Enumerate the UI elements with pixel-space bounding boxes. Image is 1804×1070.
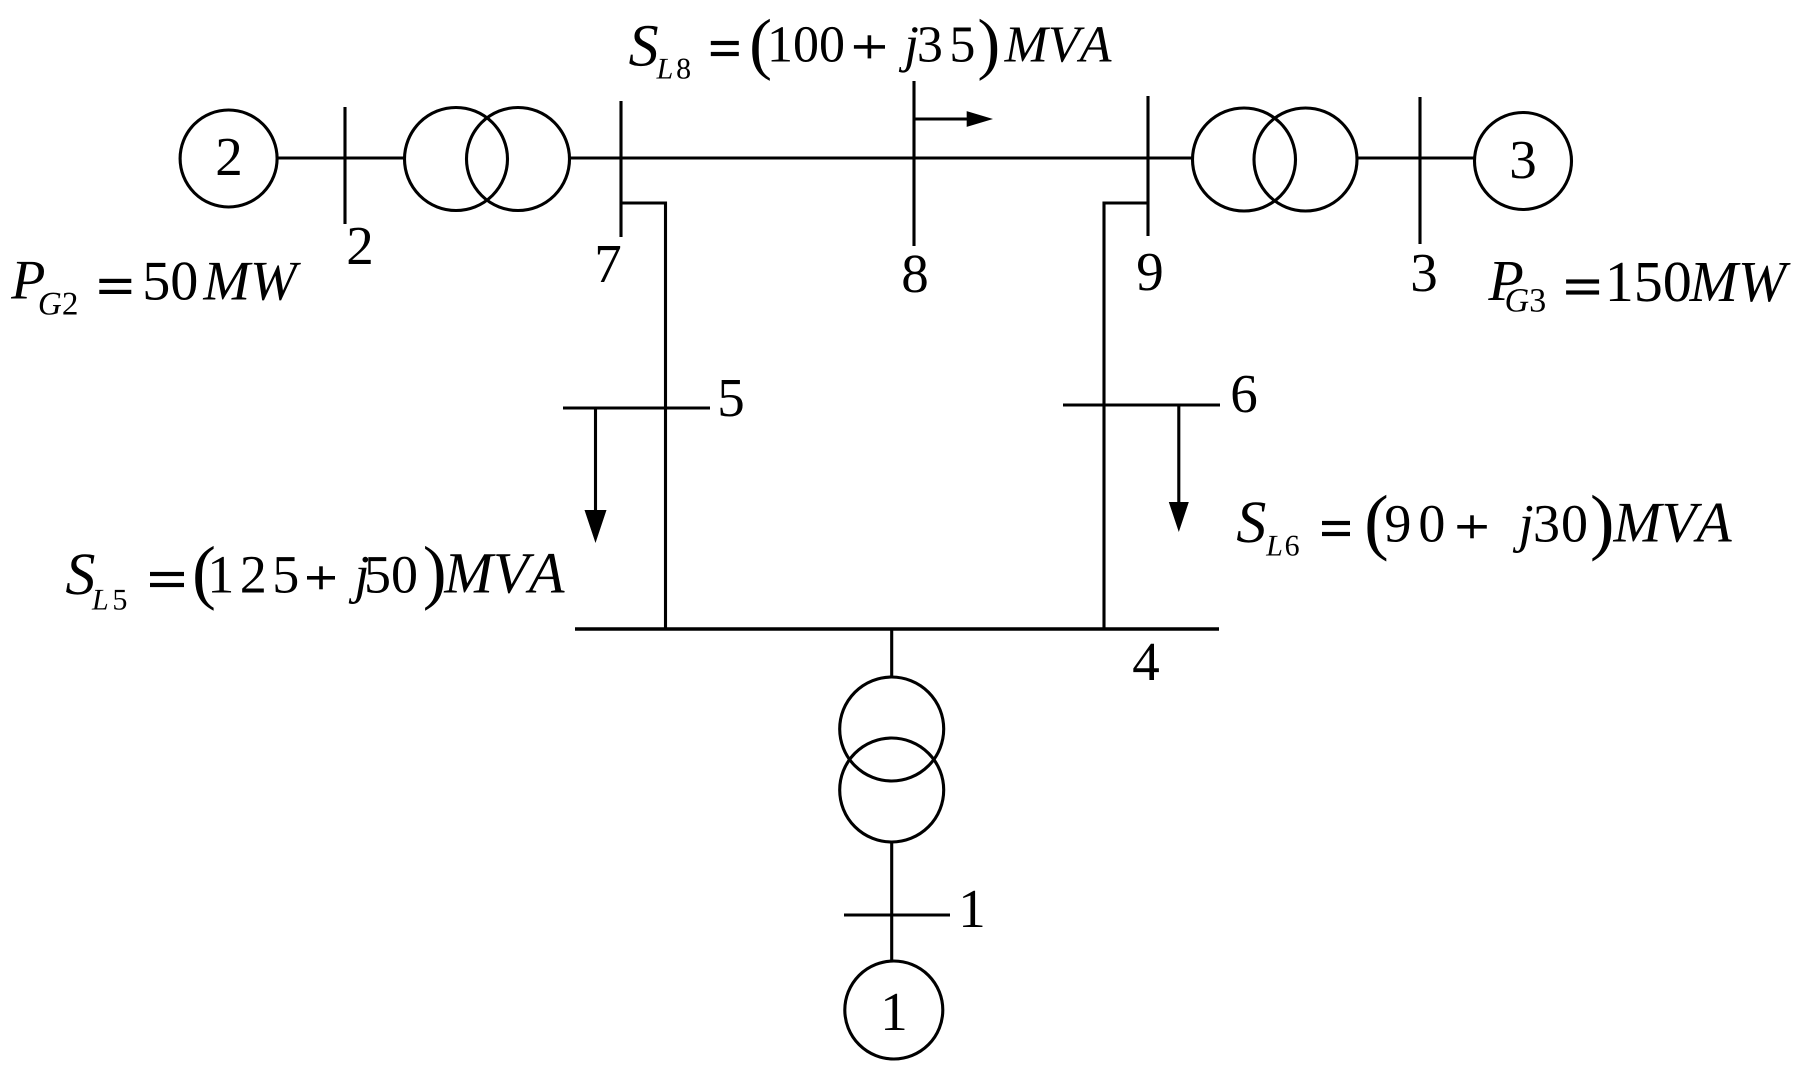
generator G1 label "1" [885, 994, 904, 1030]
bus 2 bar [343, 107, 346, 224]
bus 7 bar [619, 101, 622, 237]
bus 2 number label [349, 228, 371, 264]
generator label P_G2 = 50 MW [11, 262, 301, 315]
bus 3 bar [1418, 97, 1421, 244]
bus 8 bar [912, 81, 915, 246]
load label S_L5 = (125 + j50) MVA [66, 546, 565, 611]
load label S_L8 = (100 + j35) MVA [629, 19, 1111, 81]
bus 8 number label [903, 255, 926, 292]
transformer T3 [1193, 108, 1358, 211]
bus 9 number label [1138, 254, 1161, 291]
wire T2 to bus 7 [570, 156, 622, 159]
bus 1 number label [963, 891, 982, 927]
wire G2 to transformer T2 [277, 156, 405, 159]
generator G2 circle [180, 110, 277, 207]
bus 3 number label [1413, 255, 1436, 292]
bus 6 number label [1233, 376, 1256, 413]
wire bus 7 down to bus 4 (line 7-5-4) [621, 203, 666, 629]
transformer T1 [840, 677, 944, 842]
wire bus 9 to transformer T3 [1148, 156, 1193, 159]
wire bus 9 down to bus 4 (line 9-6-4) [1104, 203, 1148, 629]
load arrow L5 [585, 408, 607, 543]
transformer T2 [405, 108, 570, 211]
bus 6 bar [1063, 403, 1220, 406]
generator G3 label "3" [1512, 142, 1535, 179]
bus 4 number label [1133, 644, 1159, 680]
generator label P_G3 = 150 MW [1488, 262, 1791, 312]
wire T3 to bus 3 to generator G3 [1357, 156, 1475, 159]
transmission line bus 7 to bus 9 [621, 156, 1148, 159]
bus 5 bar [563, 406, 710, 409]
bus 9 bar [1146, 96, 1149, 236]
bus 4 bar [575, 627, 1219, 631]
generator G2 label "2" [218, 139, 240, 175]
load arrow L6 [1169, 405, 1189, 532]
power flow arrow at bus 8 [916, 111, 994, 127]
bus 1 bar [844, 913, 950, 916]
bus 7 number label [598, 246, 620, 282]
generator G1 circle [845, 961, 943, 1059]
bus 5 number label [720, 380, 742, 417]
wire T1 to bus 1 to generator G1 [890, 841, 893, 961]
generator G3 circle [1475, 113, 1572, 210]
load label S_L6 = (90 + j30) MVA [1237, 495, 1732, 562]
wire bus 4 to transformer T1 [890, 629, 893, 678]
